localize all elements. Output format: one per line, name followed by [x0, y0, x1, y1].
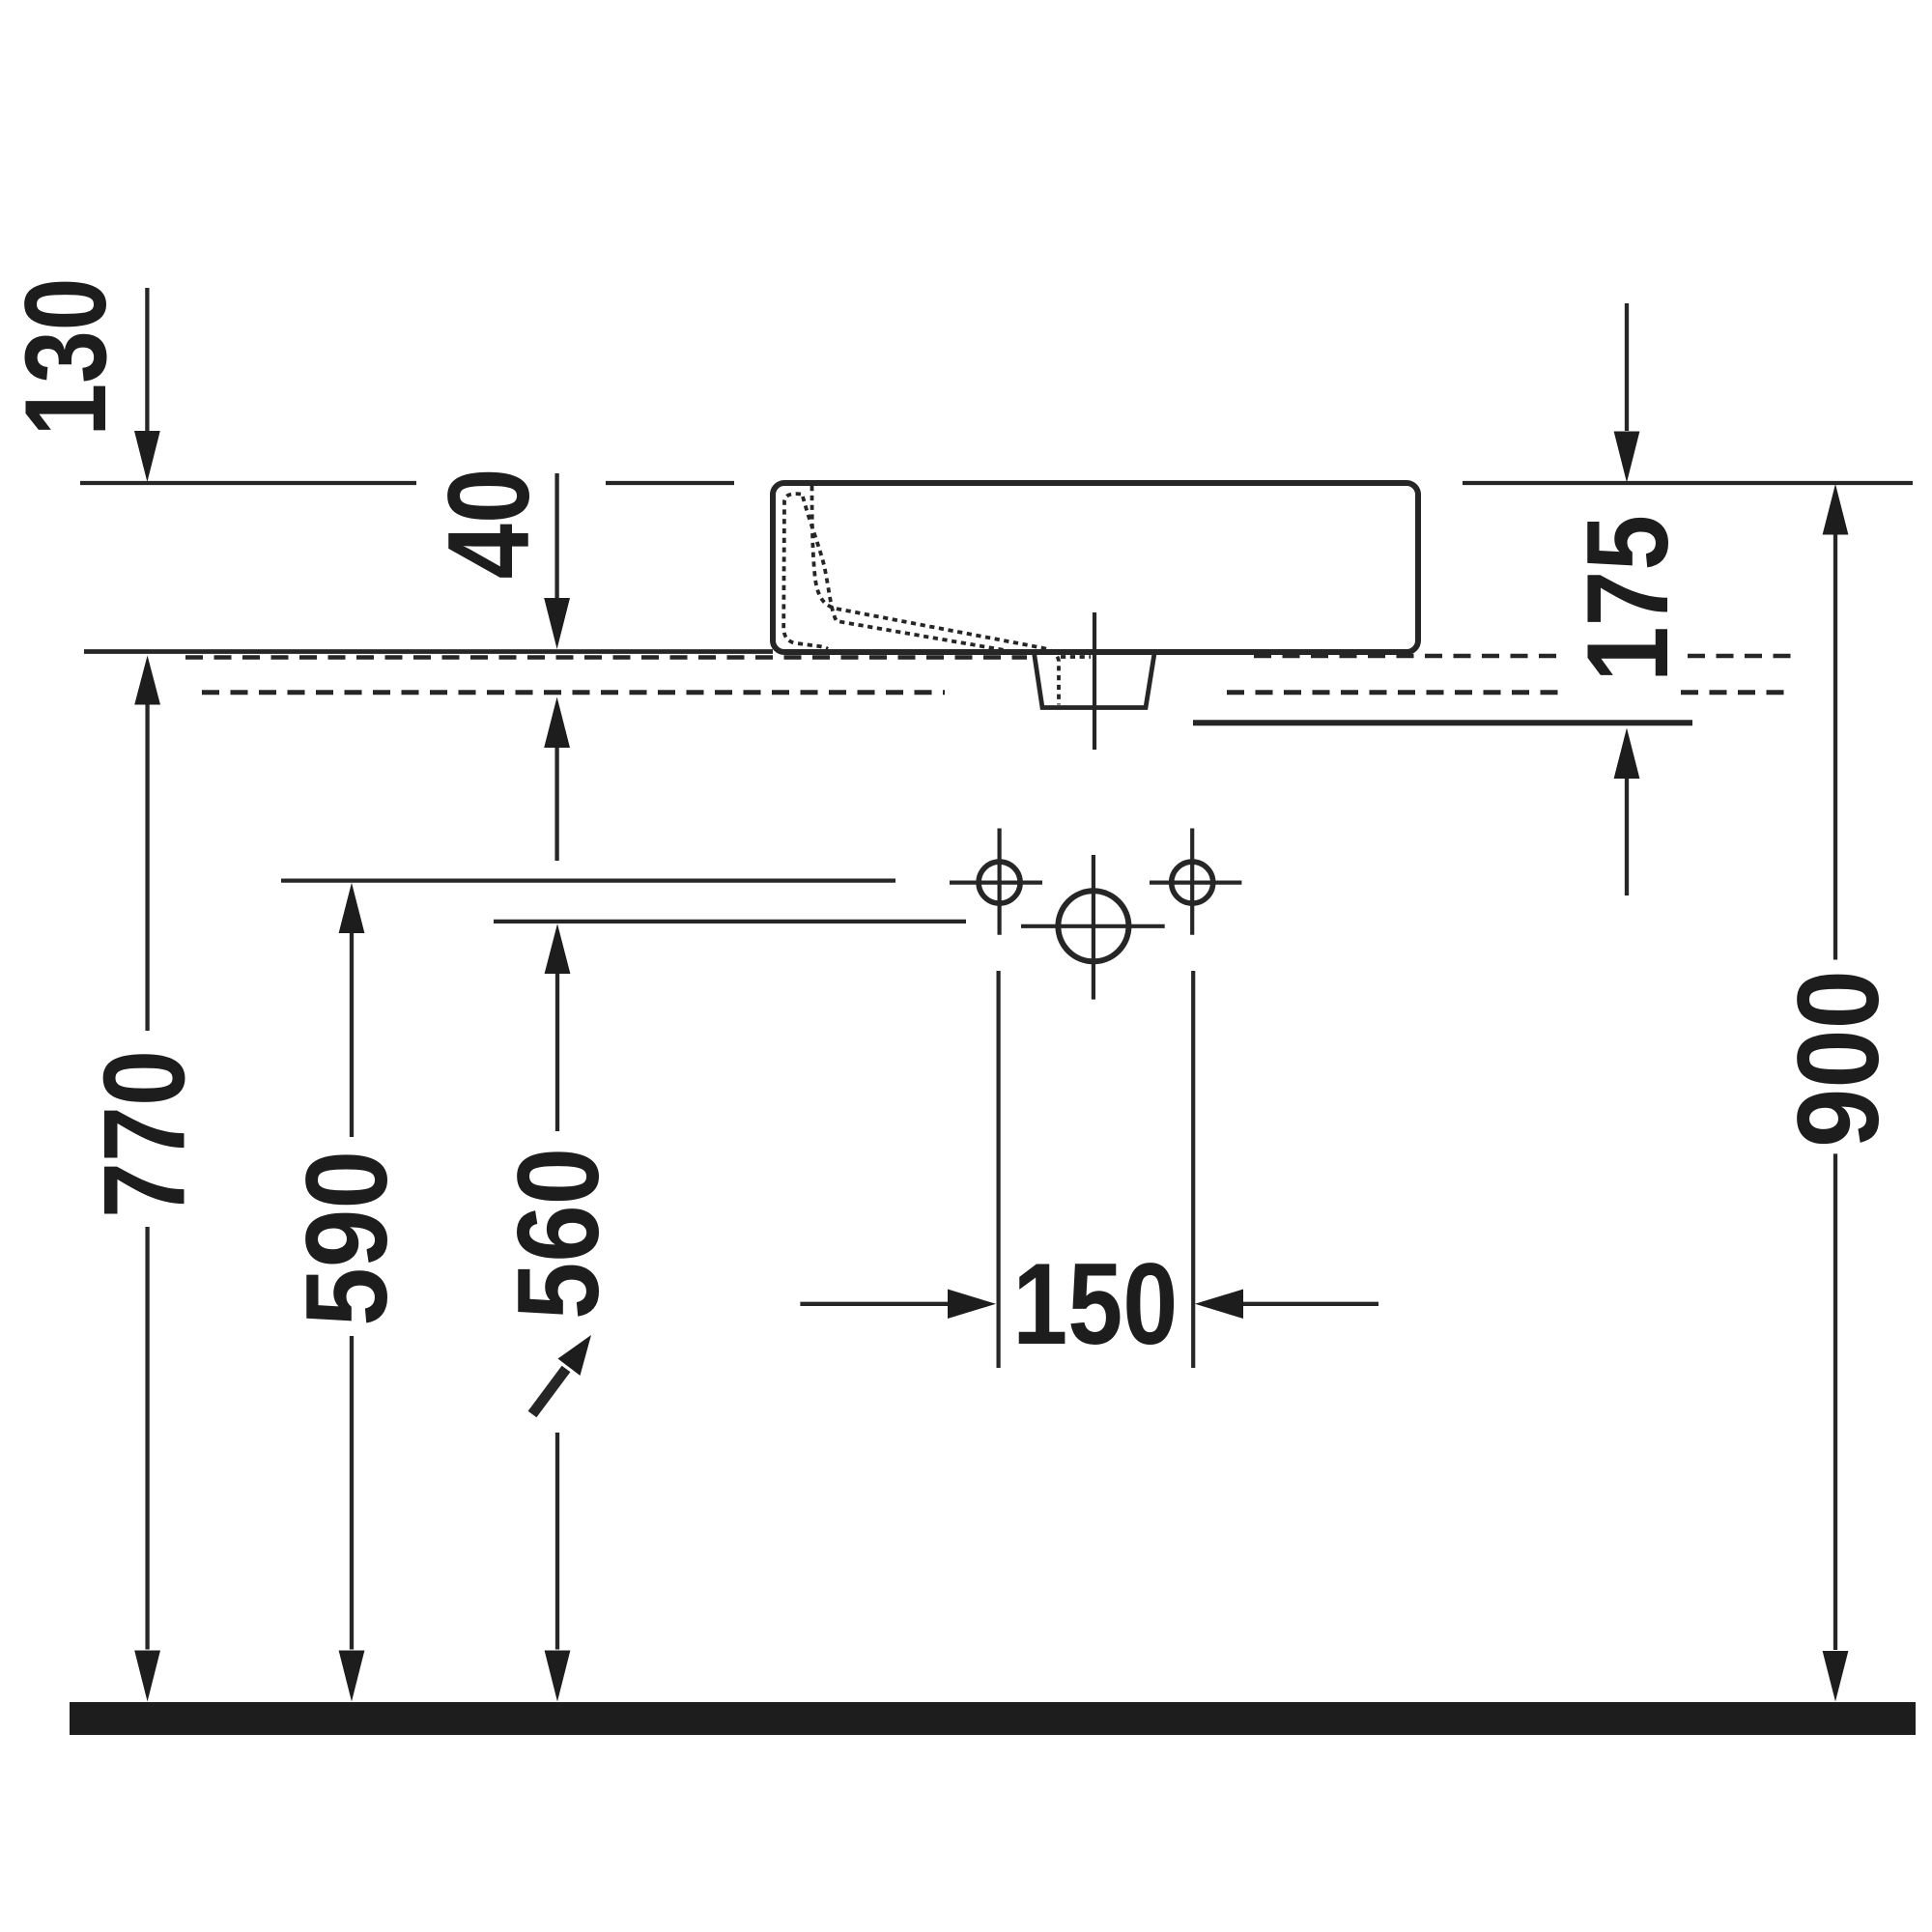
faucet main hole circle [1058, 891, 1128, 961]
arrowhead dimension 175 up [1614, 728, 1640, 780]
node hidden countertop dashed line lower middle part [1227, 690, 1565, 695]
node tap hole axis line 590 level [281, 878, 895, 882]
tap hole left horizontal centerline [950, 880, 1042, 884]
node rim-level dimension line right segment [1463, 481, 1913, 485]
dimension 150 right leader line [1243, 1302, 1378, 1306]
arrowhead dimension 900 down [1823, 1651, 1849, 1702]
dimension 150 left extension line [996, 971, 1000, 1368]
svg-text:900: 900 [1774, 970, 1903, 1148]
leader arrowhead pointing to 560 line [558, 1335, 592, 1376]
dimension 590 upper leader line [350, 930, 354, 1137]
dimension 560 lower leader line [555, 1433, 559, 1650]
basin interior hidden bowl surface dotted line to drain [812, 486, 1060, 705]
arrowhead dimension 40 down [544, 598, 570, 649]
tap hole left circle [979, 862, 1020, 903]
dimension 590 lower leader line [350, 1336, 354, 1650]
arrowhead dimension 150 right-pointing [948, 1290, 996, 1320]
svg-text:590: 590 [282, 1151, 412, 1326]
dimension 175 lower leader line [1625, 779, 1629, 895]
dimension 770 upper leader line [145, 702, 149, 1031]
dimension 130 leader line [145, 288, 149, 433]
node rim-level dimension line left segment [80, 481, 416, 485]
dimension 770 lower leader line [145, 1227, 149, 1650]
svg-text:130: 130 [1, 278, 130, 437]
node hidden countertop dashed line upper middle part [1254, 654, 1557, 659]
leader arrow shaft pointing to 560 line [532, 1369, 566, 1414]
basin cross-section outer outline [773, 483, 1418, 652]
tap hole right horizontal centerline [1150, 880, 1241, 884]
arrowhead dimension 560 down [545, 1651, 571, 1702]
svg-text:175: 175 [1563, 515, 1692, 682]
drain centerline [1093, 612, 1096, 750]
arrowhead dimension 770 up [134, 656, 160, 705]
faucet main hole vertical centerline [1092, 855, 1095, 1000]
dimension 900 upper leader line [1833, 535, 1837, 960]
tap hole right vertical centerline [1190, 829, 1194, 935]
basin interior hidden wall dotted pocket [783, 494, 828, 649]
arrowhead dimension 40 up [544, 697, 570, 749]
arrowhead dimension 590 down [339, 1651, 365, 1702]
node rim-level dimension line middle segment [606, 481, 734, 485]
arrowhead dimension 175 down [1614, 432, 1640, 483]
svg-text:770: 770 [79, 1050, 209, 1218]
arrowhead dimension 900 up [1823, 484, 1849, 535]
tap hole right circle [1172, 862, 1213, 903]
arrowhead dimension 150 left-pointing [1195, 1290, 1243, 1320]
faucet main hole horizontal centerline [1021, 924, 1165, 928]
drain hidden top edge dotted line [1061, 655, 1091, 659]
dimension 900 lower leader line [1833, 1153, 1837, 1650]
arrowhead dimension 590 up [339, 883, 365, 933]
arrowhead dimension 130 down [134, 431, 160, 482]
dimension 175 upper leader line [1625, 303, 1629, 431]
arrowhead dimension 560 up [545, 923, 571, 974]
node hidden countertop dashed line lower right part [1681, 690, 1792, 695]
node hidden countertop dashed line lower left part [202, 690, 945, 695]
drain outlet trapezoid [1035, 653, 1155, 708]
arrowhead dimension 770 down [134, 1651, 160, 1702]
dimension 150 right extension line [1191, 971, 1195, 1368]
svg-text:40: 40 [424, 469, 554, 580]
dimension 40 upper leader line [554, 473, 558, 600]
node tap hole axis line 560 level [494, 920, 966, 923]
tap hole left vertical centerline [997, 829, 1001, 935]
node mounting reference line [1193, 720, 1692, 725]
dimension 150 left leader line [800, 1302, 951, 1306]
svg-text:150: 150 [1012, 1239, 1178, 1369]
node hidden countertop dashed line upper left part [185, 655, 1027, 660]
node hidden countertop dashed line upper right part [1688, 654, 1792, 659]
dimension 560 upper leader line [555, 971, 559, 1131]
floor line [70, 1702, 1916, 1735]
node countertop surface line [84, 649, 773, 654]
dimension 40 lower leader line [554, 745, 558, 861]
svg-text:560: 560 [494, 1148, 623, 1320]
basin interior hidden inner-wall dotted line to lower slope [803, 497, 1021, 653]
